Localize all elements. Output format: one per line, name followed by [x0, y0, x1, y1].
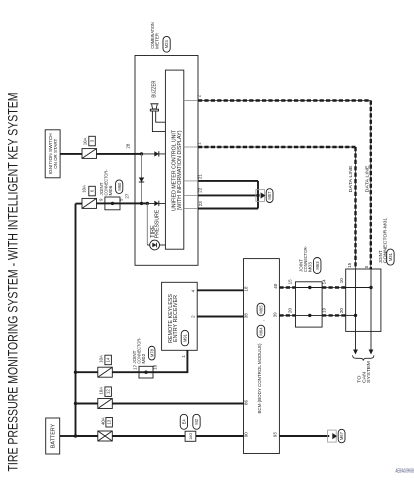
wire meter pin 28 internal with diode	[135, 153, 142, 155]
label fuse number 12 box	[105, 387, 112, 397]
svg-text:M65: M65	[258, 305, 263, 314]
wire buzzer terminal 1	[156, 111, 166, 122]
wire battery to bus junction	[60, 435, 76, 437]
node M01 row2	[354, 314, 357, 317]
wire internal vertical diode branch	[141, 154, 143, 204]
fuse F3 10A	[82, 149, 97, 159]
wire meter pin 27 internal with diode	[135, 202, 147, 204]
wire bus to fuse 13	[76, 435, 98, 437]
joint connector M03 box	[296, 282, 323, 327]
brace to CAN system	[353, 355, 374, 360]
svg-text:AEBIA0399GB: AEBIA0399GB	[396, 469, 414, 475]
connector oval E4	[180, 414, 187, 429]
svg-text:BUZZER: BUZZER	[152, 80, 158, 97]
svg-text:TIRE PRESSURE MONITORING SYSTE: TIRE PRESSURE MONITORING SYSTEM - WITH I…	[4, 93, 20, 472]
connector oval M31	[387, 249, 394, 265]
joint connector M01 box	[346, 269, 381, 331]
node M01 row1	[369, 286, 372, 289]
svg-text:,: ,	[260, 320, 265, 321]
node meter 27a	[140, 202, 143, 205]
node bus-40A junction	[74, 434, 77, 437]
wire M03 row 2	[296, 314, 323, 316]
wire BCM 93 to ground connector M67	[279, 435, 329, 437]
svg-text:DATA LINE: DATA LINE	[348, 166, 354, 193]
svg-text:13: 13	[107, 419, 112, 424]
data line from meter pin 2	[198, 100, 371, 102]
diode D1	[154, 151, 159, 156]
svg-text:20: 20	[287, 307, 292, 313]
wire M01 row2	[346, 314, 356, 316]
svg-text:ON OR START: ON OR START	[53, 139, 59, 169]
svg-text:M78: M78	[149, 348, 154, 357]
svg-text:ENTRY RECEIVER: ENTRY RECEIVER	[173, 295, 179, 342]
wire bus to fuse 6	[76, 203, 83, 205]
wire to tire pressure lamp	[146, 203, 148, 245]
svg-text:M24: M24	[164, 40, 169, 49]
combination meter M24 box	[135, 56, 198, 266]
data line BCM 39 to M03 pin 20	[279, 314, 295, 316]
svg-text:18: 18	[153, 364, 158, 370]
svg-text:10A: 10A	[99, 387, 104, 395]
wire fuse 6 to joint connector M06	[97, 202, 105, 204]
connector oval M91	[181, 330, 188, 346]
connector oval M64	[257, 325, 265, 338]
wire meter pin 1 internal	[184, 146, 198, 148]
unified meter control unit box	[165, 70, 183, 249]
label fuse number 3 box	[89, 136, 96, 146]
svg-text:40: 40	[273, 283, 278, 289]
svg-text:14: 14	[321, 279, 326, 285]
fuse F12 10A	[98, 399, 113, 409]
svg-text:14: 14	[106, 357, 111, 362]
wire receiver pin 1 to joint connector M02	[153, 350, 187, 372]
label fuse number 13 box	[106, 418, 113, 428]
connector oval M2	[193, 414, 200, 429]
svg-text:90: 90	[243, 432, 248, 438]
label fuse number 6 box	[89, 186, 96, 196]
svg-text:10A: 10A	[82, 185, 87, 193]
svg-text:BCM (BODY CONTROL MODULE): BCM (BODY CONTROL MODULE)	[257, 343, 263, 413]
svg-text:M57: M57	[267, 191, 272, 200]
svg-text:M67: M67	[339, 431, 344, 440]
battery B1	[46, 418, 60, 454]
svg-text:19: 19	[321, 307, 326, 313]
svg-text:10A: 10A	[99, 355, 104, 363]
svg-text:28: 28	[126, 143, 131, 149]
svg-text:38: 38	[243, 313, 248, 319]
svg-text:SYSTEM: SYSTEM	[366, 361, 372, 383]
fuse F6 10A	[82, 198, 97, 208]
wire meter pin 2 internal	[184, 100, 198, 102]
svg-text:M31: M31	[388, 252, 393, 261]
wire M01 can-H vertical	[370, 269, 372, 331]
svg-text:23: 23	[198, 201, 203, 207]
BCM body control module box	[244, 259, 280, 454]
connector oval M60	[116, 180, 123, 194]
svg-text:15: 15	[287, 279, 292, 285]
data line M03 14 to M01 pin 10	[322, 287, 346, 289]
svg-text:20: 20	[339, 308, 344, 314]
wire ignition switch to fuse 3	[60, 153, 82, 155]
data line M03 19 to M01 pin 20	[322, 314, 346, 316]
svg-text:15: 15	[347, 262, 352, 268]
wire fuse 13 to connector 16G	[112, 435, 185, 437]
wire fuse 12 to BCM pin 86	[112, 403, 243, 405]
connector oval M63	[313, 258, 321, 274]
node joint M02	[144, 371, 147, 374]
connector oval M65	[257, 303, 265, 316]
node meter 28	[140, 152, 143, 155]
svg-text:27: 27	[125, 193, 130, 199]
node merge 22	[256, 194, 259, 197]
ignition switch S1	[45, 130, 60, 178]
wire fuse 3 to combination meter pin 28	[97, 153, 136, 155]
svg-text:M03: M03	[307, 262, 312, 272]
connector arrow to M67	[328, 430, 337, 442]
svg-text:M06: M06	[108, 185, 113, 195]
connector oval M67	[338, 429, 345, 443]
svg-text:39: 39	[273, 312, 278, 318]
node bus-10A-14 junction	[74, 371, 77, 374]
wire bus to fuse 12	[76, 403, 98, 405]
svg-text:40A: 40A	[100, 417, 105, 425]
wire meter pin 21 internal	[184, 180, 198, 182]
node M03 row1	[308, 286, 311, 289]
connector 16G box	[185, 431, 196, 441]
node meter 27b	[146, 202, 149, 205]
svg-text:M91: M91	[182, 333, 187, 342]
connector oval M78	[148, 346, 155, 360]
wire meter 21/22/23 merge to M57	[198, 180, 258, 182]
tire pressure warning lamp LED	[150, 240, 160, 250]
joint connector M02 box	[139, 366, 153, 378]
bus wire vertical	[75, 204, 77, 437]
svg-text:18: 18	[243, 286, 248, 292]
svg-text:17: 17	[133, 364, 138, 370]
node M03 row2	[308, 314, 311, 317]
node bus-10A-12 junction	[74, 402, 77, 405]
svg-text:PRESSURE: PRESSURE	[154, 209, 160, 238]
svg-text:(WITH INFORMATION DISPLAY): (WITH INFORMATION DISPLAY)	[177, 130, 183, 210]
wire buzzer terminal 2	[152, 111, 165, 132]
svg-text:METER: METER	[155, 33, 161, 49]
svg-text:93: 93	[272, 432, 277, 438]
wire bus to fuse 14	[76, 371, 98, 373]
fusible link F13 40A	[98, 431, 113, 441]
svg-text:10: 10	[339, 278, 344, 284]
connector arrow to M57	[256, 190, 265, 202]
svg-text:M63: M63	[315, 261, 320, 270]
wire to CAN system right	[370, 331, 372, 349]
svg-text:E4: E4	[181, 419, 186, 425]
wire M01 can-L vertical	[355, 269, 357, 331]
svg-text:22: 22	[198, 187, 203, 193]
data line from meter pin 1	[198, 146, 356, 148]
svg-text:12: 12	[106, 389, 111, 394]
svg-text:M02: M02	[141, 353, 146, 363]
wire to CAN system left	[355, 331, 357, 349]
connector oval M57	[266, 189, 273, 203]
wire lamp to unit	[160, 244, 166, 246]
data line BCM 40 to M03 pin 15	[279, 287, 295, 289]
wire receiver 2 to BCM 38	[197, 316, 243, 318]
remote keyless entry receiver box	[162, 282, 198, 350]
svg-text:M64: M64	[258, 327, 263, 336]
buzzer symbol	[150, 103, 158, 105]
svg-text:M60: M60	[117, 182, 122, 191]
wire M03 row 1	[296, 287, 323, 289]
node joint M06	[111, 202, 114, 205]
wire joint M06 to combination meter pin 27	[120, 202, 135, 204]
svg-text:86: 86	[243, 399, 248, 405]
fuse F14 10A	[98, 367, 113, 377]
wire meter pin 23 internal	[184, 208, 198, 210]
label fuse number 14 box	[105, 355, 112, 365]
diode D2	[139, 178, 144, 183]
wire meter pin 22 internal	[184, 194, 198, 196]
joint connector M06 box	[105, 197, 120, 210]
wire M01 row1	[346, 287, 371, 289]
svg-text:M2: M2	[194, 418, 199, 424]
diode D3	[154, 201, 159, 206]
svg-text:BATTERY: BATTERY	[51, 423, 57, 448]
connector oval M24	[163, 36, 170, 52]
wire receiver 4 to BCM 18	[197, 289, 243, 291]
wire fuse 14 to joint connector M02	[112, 371, 139, 373]
svg-text:21: 21	[198, 174, 203, 180]
wire 16G to BCM pin 90	[196, 435, 244, 437]
svg-text:16G: 16G	[189, 433, 193, 440]
svg-text:10A: 10A	[82, 138, 87, 146]
svg-text:DATA LINE: DATA LINE	[365, 166, 371, 193]
